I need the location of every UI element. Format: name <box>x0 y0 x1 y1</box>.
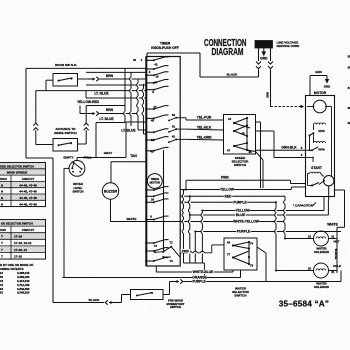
cold water solenoid <box>276 270 314 272</box>
motor centrifugal switch <box>324 176 334 186</box>
wire below door switch <box>36 90 147 92</box>
motor capacitor leads <box>328 186 330 200</box>
wire BLUE capacitor <box>190 214 329 216</box>
disconnect to purple wire <box>170 281 173 283</box>
wire from water selector right <box>257 247 266 253</box>
speed selector switch <box>224 115 256 155</box>
disconnect bottom black wire <box>112 302 117 304</box>
bus vertical b <box>189 196 191 263</box>
service cord lead L2 <box>270 48 272 61</box>
wire white-blue from timer bottom <box>155 266 157 272</box>
motor speed winding 1 <box>314 123 326 125</box>
wire PINK from timer bottom <box>180 252 212 254</box>
wire from speed selector to pink node <box>256 121 261 123</box>
service cord lead L1 <box>258 48 260 61</box>
crossover hops right verticals <box>284 196 286 238</box>
water selector switch <box>224 238 257 270</box>
wires into water selector below <box>63 277 241 279</box>
wire WHITE-BLUE vertical <box>336 239 338 274</box>
wire PURPLE lower <box>195 231 341 233</box>
bus vertical c <box>194 232 196 264</box>
timer right contacts to speed selector <box>175 117 177 119</box>
wire top horizontal black run <box>26 67 146 69</box>
wire left vertical run to bottom <box>52 158 54 303</box>
wire BLACK from service cord to timer <box>200 76 259 78</box>
buzzer <box>102 183 118 199</box>
bus vertical d <box>201 211 203 264</box>
ground wire to motor <box>270 70 272 107</box>
motor main winding <box>313 100 326 113</box>
wire YELLOW capacitor <box>202 210 324 212</box>
bus vertical a <box>183 190 185 263</box>
wire YELLOW to motor <box>180 189 291 191</box>
wire bottom BLACK run <box>53 302 104 304</box>
bus bottom collector <box>184 262 205 264</box>
wire PURPLE upper <box>180 201 276 203</box>
ground lead GRD arrow <box>263 48 265 51</box>
timer inner bus <box>163 150 165 252</box>
wire left border drop <box>25 68 27 158</box>
momentary switch <box>131 290 164 300</box>
speed selector table <box>0 163 46 207</box>
motor speed winding 2 <box>314 142 326 144</box>
hot water solenoid <box>285 238 314 240</box>
water selector table <box>0 220 46 260</box>
left bus crossover hops <box>124 112 126 116</box>
line voltage service cord block <box>255 41 273 49</box>
wire BRN door switch <box>78 78 89 80</box>
timer motor circle <box>147 174 162 189</box>
wire second run <box>86 71 146 73</box>
wire WHITE-YELLOW <box>189 221 285 223</box>
wire RED <box>180 195 285 197</box>
wire speed selector to motor 3 <box>256 130 275 132</box>
timer left contacts <box>145 59 147 61</box>
